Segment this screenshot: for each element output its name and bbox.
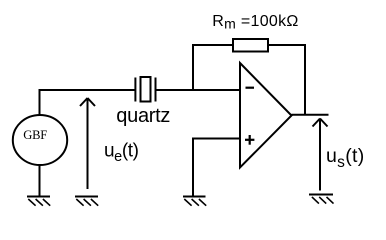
minus input sign [246, 87, 255, 89]
svg-text:ue(t): ue(t) [104, 141, 139, 166]
wire: GBF bottom to ground [39, 164, 41, 196]
op-amp U1 [240, 63, 292, 168]
wire: top-left horizontal input wire from GBF corner to quartz [39, 89, 136, 91]
arrow u_e(t) [80, 98, 95, 189]
ground (under op-amp plus input) [183, 197, 206, 206]
svg-text:Rm =100kΩ: Rm =100kΩ [212, 13, 298, 32]
ground (under u_s arrow) [309, 195, 334, 204]
ground (under GBF) [27, 197, 50, 206]
wire: feedback horizontal to resistor [192, 44, 233, 46]
ground (under u_e arrow) [75, 197, 98, 206]
svg-text:GBF: GBF [23, 128, 47, 142]
wire: vertical from corner down to GBF top [39, 89, 41, 115]
resistor Rm [233, 39, 268, 52]
svg-text:quartz: quartz [116, 105, 170, 127]
wire: feedback vertical riser at node [192, 45, 194, 90]
wire: output [292, 114, 329, 116]
plus input sign [245, 135, 254, 145]
wire: plus input to left [192, 138, 240, 140]
arrow u_s(t) [313, 119, 328, 191]
wire: down to ground from plus input [192, 138, 194, 197]
wire: quartz to op-amp minus input [157, 89, 241, 91]
wire: resistor to right riser [268, 44, 306, 46]
quartz crystal X1 [135, 77, 155, 102]
wire: right riser down to output [304, 44, 306, 116]
generator GBF [13, 115, 67, 165]
